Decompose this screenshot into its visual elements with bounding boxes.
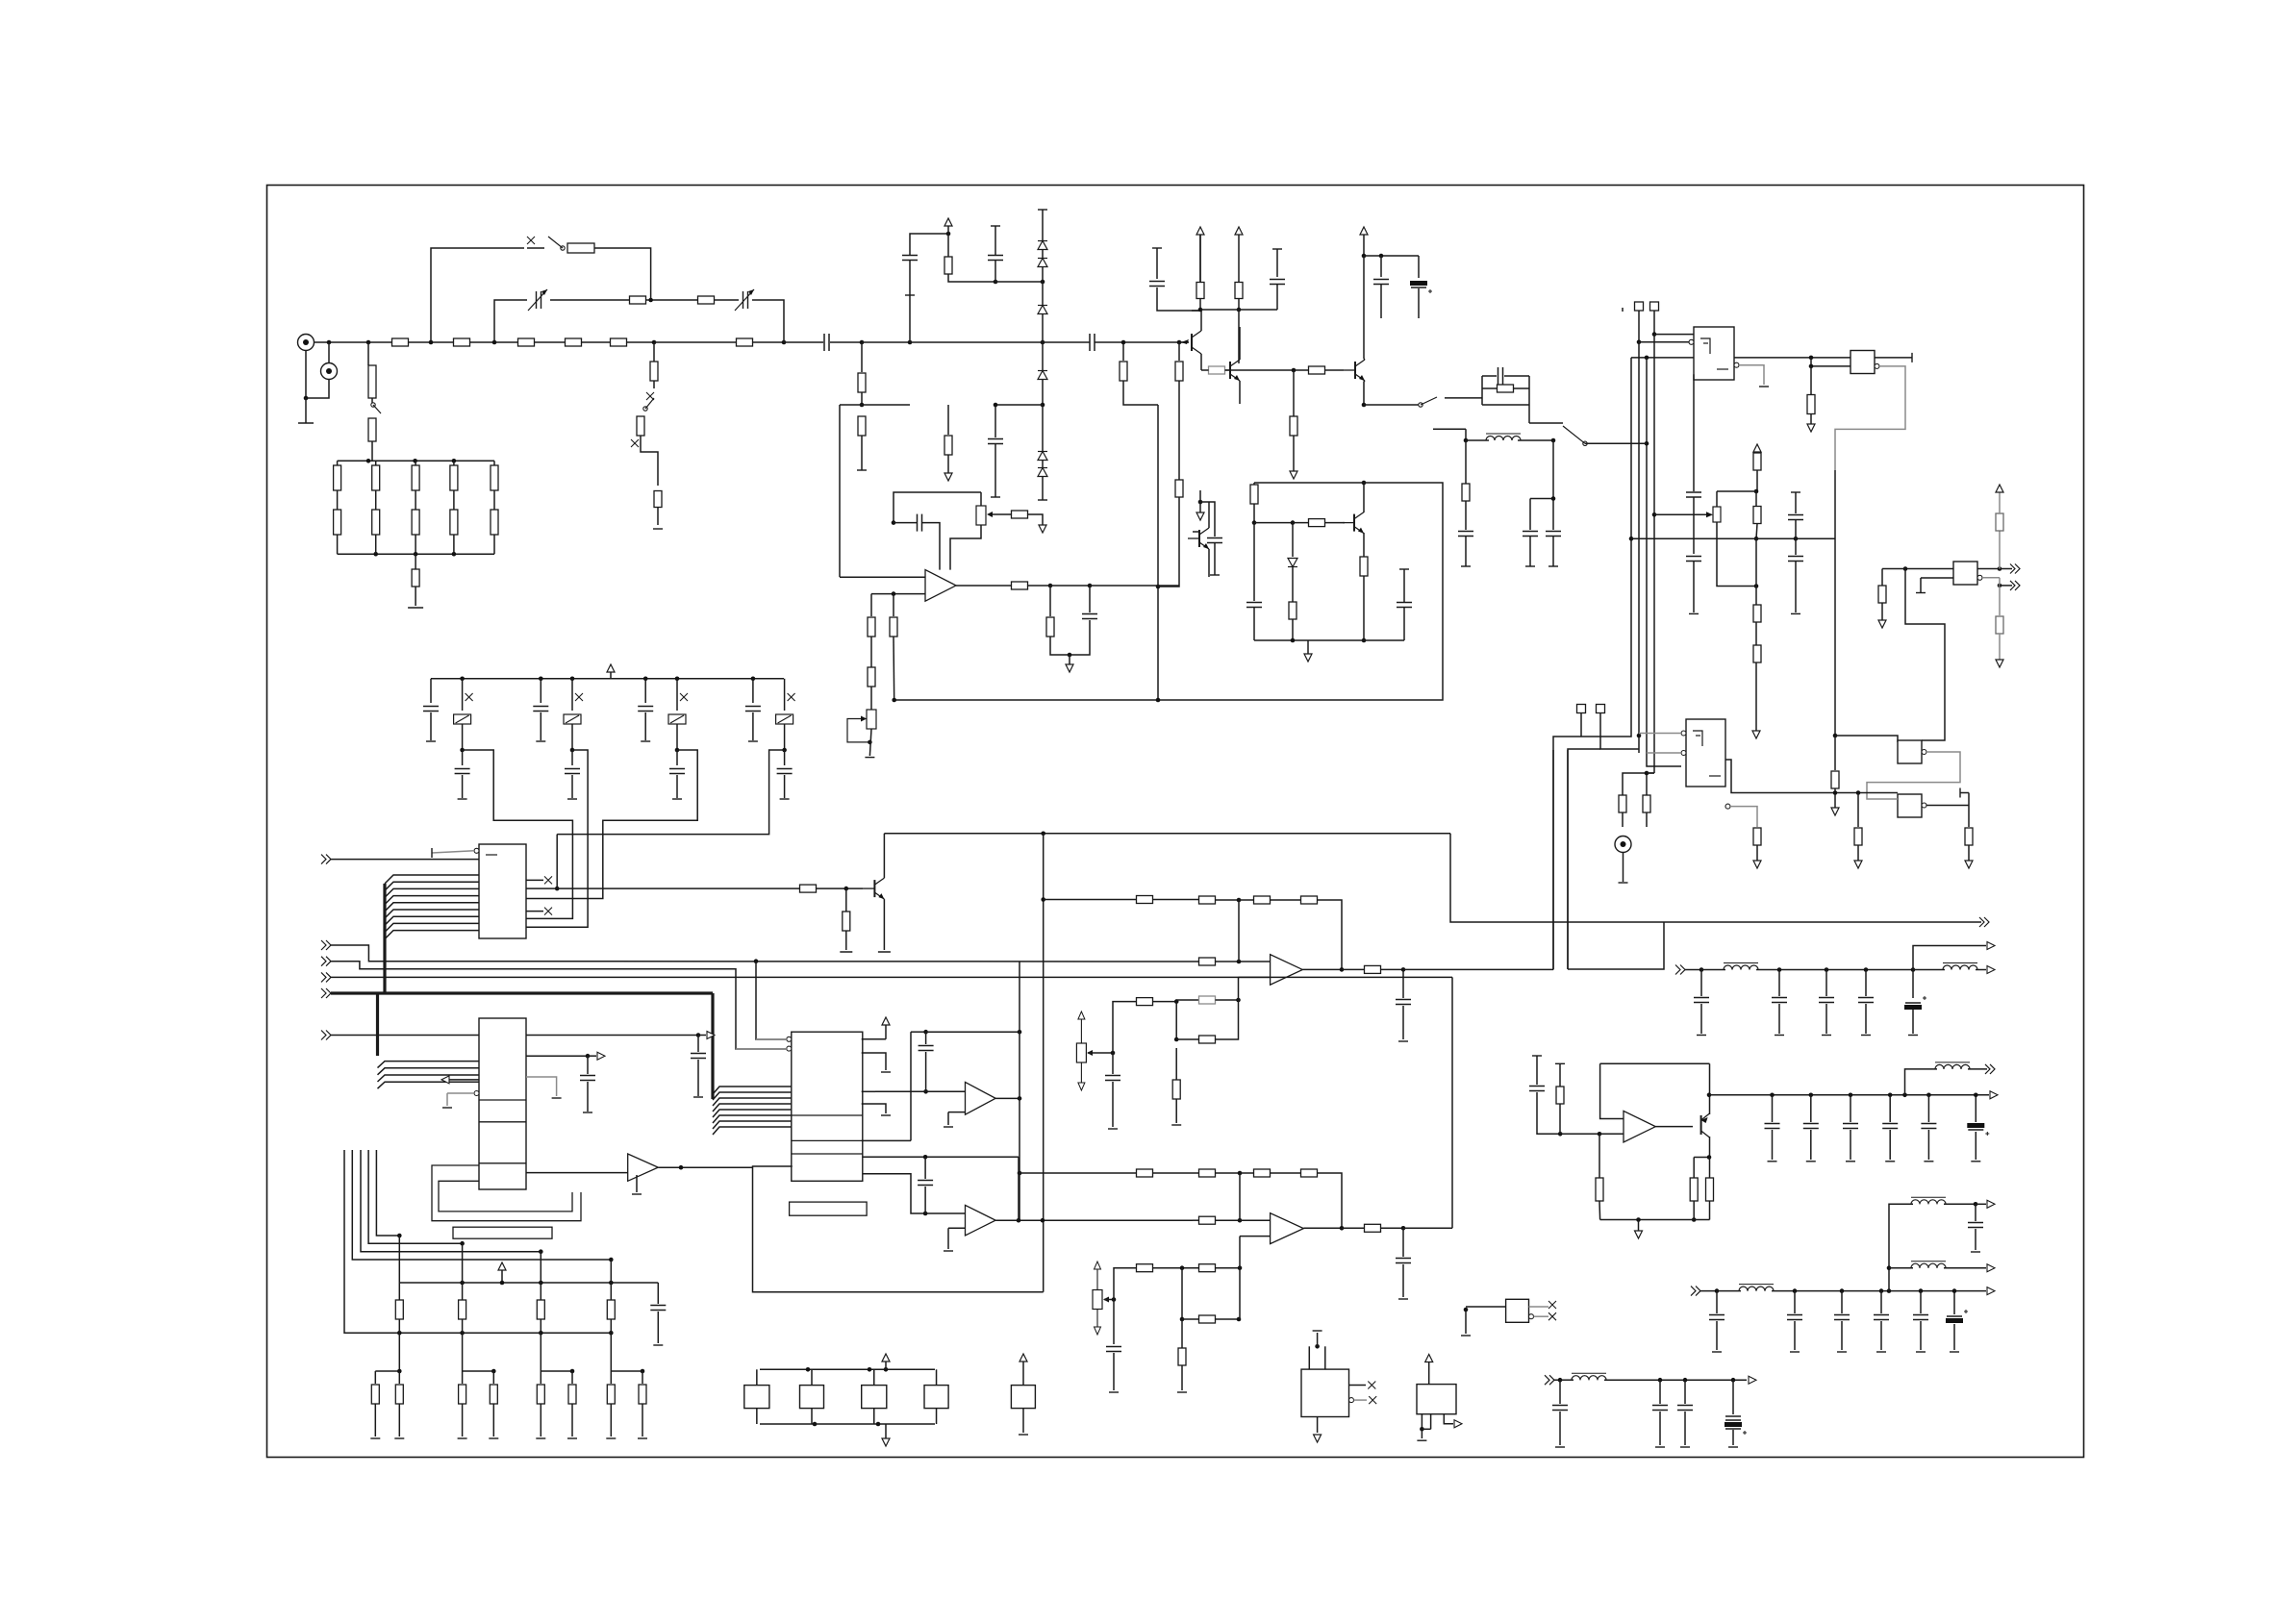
wire W497 bbox=[760, 1368, 935, 1370]
wire W87 bbox=[1199, 299, 1201, 311]
wire W50 bbox=[839, 405, 841, 577]
terminator bbox=[991, 496, 1000, 498]
polarized capacitor C56 bbox=[1725, 1422, 1747, 1435]
transistor Q3 bbox=[1188, 528, 1209, 549]
wire W56 bbox=[948, 274, 995, 282]
junction bbox=[1952, 1288, 1957, 1293]
wire W333 bbox=[883, 834, 885, 878]
resistor R96 bbox=[1137, 1169, 1153, 1177]
IC XF6 bbox=[1301, 1369, 1349, 1416]
wire W495 bbox=[1018, 1157, 1020, 1220]
wire W383 bbox=[1239, 976, 1271, 978]
wire W39 bbox=[338, 553, 494, 555]
wire W69 bbox=[1042, 461, 1044, 467]
power arrow bbox=[1425, 1355, 1433, 1362]
wire W48 bbox=[861, 392, 863, 405]
terminator bbox=[1697, 1035, 1706, 1037]
wire W523 bbox=[1020, 1172, 1137, 1174]
resistor R85 bbox=[395, 1385, 403, 1404]
wire W508 bbox=[885, 1424, 887, 1438]
terminator bbox=[1924, 1161, 1933, 1162]
junction bbox=[1699, 967, 1704, 972]
junction bbox=[1018, 1096, 1022, 1101]
wire W119 bbox=[1293, 522, 1309, 524]
wire W129 bbox=[1292, 567, 1294, 602]
junction bbox=[868, 1367, 872, 1372]
terminator bbox=[1417, 1439, 1426, 1441]
junction bbox=[1362, 481, 1367, 486]
IC U5 bbox=[1686, 719, 1725, 787]
wire W252 bbox=[1050, 585, 1090, 587]
junction bbox=[1401, 967, 1406, 972]
resistor R15 bbox=[334, 465, 341, 490]
IC U5 divider bbox=[479, 1099, 526, 1101]
wire W273 bbox=[571, 724, 573, 750]
junction bbox=[1041, 280, 1045, 285]
wire W340 bbox=[713, 1092, 792, 1100]
wire W192 bbox=[1631, 537, 1835, 539]
wire W116 bbox=[1253, 483, 1255, 485]
resistor R52 bbox=[1965, 828, 1973, 845]
connector port bbox=[321, 988, 331, 998]
terminator bbox=[1019, 1434, 1028, 1436]
junction bbox=[304, 396, 309, 401]
resistor R61 bbox=[1012, 511, 1028, 518]
terminator bbox=[1655, 1446, 1665, 1448]
wire W374 bbox=[1153, 899, 1200, 901]
junction bbox=[366, 340, 371, 345]
wire W389 bbox=[1402, 1006, 1404, 1039]
junction bbox=[1840, 1288, 1845, 1293]
ground bbox=[944, 473, 952, 481]
output bubble bbox=[1725, 804, 1730, 809]
resistor R87 bbox=[490, 1385, 497, 1404]
IC XF7 bbox=[1417, 1385, 1456, 1414]
wire W498 bbox=[885, 1362, 887, 1369]
wire W362 bbox=[1088, 1052, 1113, 1054]
wire W214 bbox=[1647, 752, 1681, 754]
capacitor C35 bbox=[1396, 1000, 1411, 1005]
wire W564 bbox=[1659, 1412, 1661, 1445]
wire W311 bbox=[331, 976, 1025, 978]
wire W91 bbox=[1201, 369, 1209, 371]
wire W25 bbox=[371, 441, 373, 461]
wire W502 bbox=[811, 1409, 813, 1424]
wire W500 bbox=[756, 1409, 758, 1424]
terminator bbox=[1806, 1161, 1816, 1162]
wire W375 bbox=[1216, 899, 1240, 901]
wire W74 bbox=[947, 455, 949, 479]
junction bbox=[946, 232, 951, 237]
wire W345 bbox=[713, 1121, 792, 1129]
trimmer trimmer capacitor1 bbox=[454, 714, 471, 724]
wire W55 bbox=[947, 234, 949, 257]
wire W308 bbox=[331, 945, 1199, 962]
terminator bbox=[881, 1114, 891, 1116]
wire W512 bbox=[1114, 1268, 1137, 1300]
no-connect X bbox=[466, 693, 473, 701]
junction bbox=[1849, 1093, 1853, 1098]
wire W436 bbox=[1968, 1068, 1987, 1070]
wire W402 bbox=[1976, 969, 1986, 971]
resistor R84 bbox=[371, 1385, 379, 1404]
wire W438 bbox=[1975, 1132, 1976, 1160]
capacitor C31 bbox=[691, 1054, 706, 1059]
wire W444 bbox=[1600, 1219, 1710, 1221]
wire W298 bbox=[385, 882, 479, 890]
junction bbox=[1237, 1317, 1242, 1322]
wire W305 bbox=[385, 931, 479, 939]
wire W397 bbox=[1685, 969, 1701, 971]
junction bbox=[1926, 1093, 1931, 1098]
wire W328 bbox=[446, 1093, 448, 1106]
capacitor C9 bbox=[1373, 280, 1389, 285]
wire W558 bbox=[1554, 1379, 1560, 1381]
wire W454 bbox=[376, 1150, 399, 1236]
wire W420 bbox=[1600, 1063, 1624, 1118]
connector port bbox=[1987, 966, 1995, 974]
wire W173 bbox=[1647, 772, 1654, 774]
connector port bbox=[1454, 1420, 1462, 1428]
resistor R8 bbox=[368, 418, 376, 441]
wire W353 bbox=[862, 1139, 911, 1141]
wire W580 bbox=[1889, 1204, 1913, 1290]
junction bbox=[570, 1369, 575, 1374]
connector port bbox=[1987, 1200, 1995, 1208]
wire W32 bbox=[715, 299, 740, 301]
wire W228 bbox=[1999, 492, 2001, 513]
wire W292 bbox=[784, 775, 786, 798]
power arrow bbox=[498, 1262, 506, 1270]
wire W440 bbox=[1693, 1158, 1695, 1179]
ground bbox=[1996, 660, 2003, 667]
wire W446 bbox=[1599, 1134, 1600, 1178]
wire W488 bbox=[863, 1156, 1019, 1158]
wire W385 bbox=[1342, 968, 1364, 970]
terminator bbox=[1971, 1161, 1980, 1162]
wire W406 bbox=[1778, 1004, 1780, 1034]
wire W118 bbox=[1254, 522, 1293, 524]
wire W112 bbox=[1364, 381, 1365, 405]
wire W124 bbox=[1363, 533, 1365, 558]
junction bbox=[860, 403, 865, 408]
wire W139 bbox=[1482, 375, 1497, 377]
junction bbox=[1018, 1171, 1022, 1176]
wire W513 bbox=[1153, 1267, 1200, 1269]
junction bbox=[1291, 638, 1296, 643]
wire W262 bbox=[430, 712, 432, 740]
capacitor C43 bbox=[1803, 1124, 1819, 1129]
wire W251 bbox=[1028, 585, 1051, 587]
resistor R73 bbox=[1199, 996, 1216, 1004]
terminator bbox=[1916, 592, 1926, 594]
junction bbox=[1707, 1155, 1712, 1160]
terminator bbox=[1689, 612, 1699, 614]
wire W184 bbox=[1756, 452, 1758, 453]
capacitor C53 bbox=[1652, 1406, 1668, 1411]
wire W163 bbox=[1581, 358, 1631, 737]
capacitor C59 bbox=[1874, 1315, 1889, 1320]
capacitor C27 bbox=[638, 707, 653, 712]
wire W560 bbox=[1604, 1379, 1747, 1381]
terminator bbox=[1398, 1040, 1408, 1042]
IC U6 bbox=[1953, 562, 1977, 585]
wire W347 bbox=[862, 1038, 886, 1040]
junction bbox=[1088, 584, 1093, 588]
wire W200 bbox=[1795, 520, 1797, 538]
wire W234 bbox=[1622, 308, 1624, 312]
wire W144 bbox=[1465, 429, 1467, 440]
wire W577 bbox=[1880, 1321, 1882, 1350]
wire W291 bbox=[784, 750, 786, 765]
wire W334 bbox=[883, 899, 885, 950]
wire W153 bbox=[1530, 498, 1553, 500]
IC XF2 bbox=[800, 1386, 824, 1409]
wire W261 bbox=[430, 679, 432, 703]
wire W318 bbox=[698, 1035, 706, 1037]
wire W343 bbox=[713, 1110, 792, 1117]
wire W393 bbox=[1568, 922, 1664, 969]
wire W110 bbox=[1325, 369, 1345, 371]
wire W11 bbox=[654, 341, 737, 343]
wire W394 bbox=[1623, 853, 1624, 883]
terminator bbox=[991, 225, 1000, 227]
connector terminal P1 bbox=[1635, 302, 1644, 311]
ground bbox=[1314, 1435, 1322, 1442]
wire W226 bbox=[2000, 568, 2012, 570]
junction bbox=[884, 1367, 889, 1372]
wire W180 bbox=[1810, 366, 1812, 394]
wire W441 bbox=[1709, 1158, 1711, 1179]
wire W419 bbox=[1600, 1062, 1710, 1064]
wire W443 bbox=[1709, 1201, 1711, 1220]
wire W24 bbox=[371, 398, 373, 404]
terminator bbox=[653, 528, 663, 530]
ground bbox=[1831, 808, 1839, 815]
wire W243 bbox=[894, 492, 981, 523]
junction bbox=[609, 1258, 614, 1262]
resistor R98 bbox=[1254, 1169, 1271, 1177]
resistor R17 bbox=[372, 465, 380, 490]
resistor R37 bbox=[1290, 416, 1297, 436]
wire W15 bbox=[862, 341, 910, 343]
junction bbox=[460, 1331, 465, 1336]
terminator bbox=[583, 1112, 592, 1113]
wire W315 bbox=[378, 1075, 480, 1082]
wire W207 bbox=[1867, 752, 1960, 799]
wire W474 bbox=[462, 1371, 464, 1384]
junction bbox=[452, 459, 457, 463]
wire W122 bbox=[1254, 482, 1364, 484]
resistor R34 bbox=[1235, 283, 1243, 299]
resistor R75 bbox=[1365, 965, 1381, 973]
wire W540 bbox=[1402, 1228, 1404, 1257]
junction bbox=[570, 748, 575, 753]
junction bbox=[1879, 1288, 1884, 1293]
switch switch1 bbox=[371, 403, 381, 413]
terminator bbox=[606, 1437, 616, 1439]
terminator bbox=[638, 1437, 647, 1439]
wire W532 bbox=[1240, 1219, 1271, 1221]
wire W227 bbox=[1999, 531, 2001, 569]
capacitor C41 bbox=[1529, 1087, 1545, 1091]
wire W434 bbox=[1927, 1130, 1929, 1160]
terminator bbox=[1790, 1351, 1800, 1353]
wire W162 bbox=[1631, 357, 1694, 359]
wire W378 bbox=[1318, 900, 1343, 969]
wire W327 bbox=[447, 1092, 474, 1094]
resistor R32 bbox=[1175, 480, 1183, 497]
junction bbox=[1645, 771, 1649, 776]
power arrow bbox=[1020, 1354, 1027, 1362]
terminator bbox=[1885, 1161, 1895, 1162]
no-connect X bbox=[1369, 1396, 1376, 1404]
junction bbox=[1238, 1218, 1243, 1223]
wire W248 bbox=[1028, 514, 1044, 525]
power arrow bbox=[944, 218, 952, 226]
wire W415 bbox=[1559, 1063, 1561, 1087]
wire W392 bbox=[1450, 834, 1981, 922]
wire W300 bbox=[385, 896, 479, 905]
wire W522 bbox=[1181, 1365, 1183, 1390]
wire W582 bbox=[1976, 1203, 1986, 1205]
junction bbox=[994, 280, 998, 285]
wire W168 bbox=[1580, 713, 1582, 737]
resistor R5 bbox=[611, 338, 627, 346]
terminator bbox=[1822, 1035, 1831, 1037]
wire W21 bbox=[1192, 310, 1201, 312]
potentiometer potentiometer4 bbox=[1093, 1290, 1102, 1310]
capacitor C38 bbox=[1819, 998, 1834, 1003]
wire W427 bbox=[1810, 1095, 1812, 1122]
wire W396 bbox=[1451, 977, 1453, 1228]
resistor R46 bbox=[1807, 395, 1815, 414]
terminator bbox=[1619, 882, 1628, 884]
junction bbox=[1636, 1217, 1641, 1222]
resistor R97 bbox=[1199, 1169, 1216, 1177]
wire W435 bbox=[1905, 1069, 1938, 1095]
terminator bbox=[1712, 1351, 1722, 1353]
wire W559 bbox=[1560, 1379, 1573, 1381]
wire W289 bbox=[784, 724, 786, 750]
wire W401 bbox=[1913, 969, 1945, 971]
resistor R68 bbox=[1137, 896, 1153, 904]
wire W453 bbox=[368, 1150, 463, 1243]
wire W518 bbox=[1181, 1268, 1183, 1319]
wire W276 bbox=[571, 775, 573, 798]
connector port in bbox=[1545, 1375, 1554, 1385]
output bubble bbox=[1875, 363, 1879, 368]
wire W239 bbox=[870, 687, 872, 710]
wire W319 bbox=[697, 1036, 699, 1053]
wire W366 bbox=[1176, 999, 1199, 1001]
wire W79 bbox=[1157, 405, 1159, 700]
terminator bbox=[1109, 1391, 1119, 1393]
wire W472 bbox=[398, 1404, 400, 1437]
terminator bbox=[1555, 1062, 1565, 1064]
junction bbox=[1731, 1378, 1736, 1383]
switch switch5 bbox=[1563, 426, 1587, 445]
terminator bbox=[1791, 491, 1800, 493]
wire W551 bbox=[1317, 1417, 1319, 1434]
capacitor C32 bbox=[580, 1076, 595, 1081]
wire W174 bbox=[1646, 812, 1648, 827]
wire W181 bbox=[1810, 414, 1812, 424]
terminator bbox=[1177, 1391, 1187, 1393]
capacitor C45 bbox=[1882, 1124, 1898, 1129]
wire W407 bbox=[1825, 970, 1827, 997]
resistor R40 bbox=[1360, 557, 1368, 576]
junction bbox=[1833, 734, 1838, 738]
wire W288 bbox=[784, 697, 786, 711]
junction bbox=[397, 1234, 402, 1238]
junction bbox=[1856, 790, 1861, 795]
junction bbox=[675, 748, 680, 753]
wire W566 bbox=[1684, 1412, 1686, 1445]
capacitor C2 bbox=[1090, 334, 1095, 351]
wire W191 bbox=[1756, 524, 1757, 539]
wire W37 bbox=[657, 508, 659, 526]
resistor R69 bbox=[1199, 896, 1216, 904]
wire W6 bbox=[409, 341, 455, 343]
wire W562 bbox=[1559, 1412, 1561, 1445]
wire W253 bbox=[1090, 585, 1179, 587]
wire W269 bbox=[540, 679, 541, 703]
wire W405 bbox=[1778, 970, 1780, 997]
junction bbox=[1041, 340, 1045, 345]
wire W320 bbox=[697, 1060, 699, 1096]
junction bbox=[452, 552, 457, 557]
wire W501 bbox=[811, 1369, 813, 1385]
wire W62 bbox=[1042, 267, 1044, 282]
wire W450 bbox=[636, 1175, 638, 1192]
junction bbox=[1888, 1093, 1893, 1098]
ground bbox=[1752, 731, 1760, 738]
wire W14 bbox=[830, 341, 862, 343]
junction bbox=[1362, 254, 1367, 259]
wire W462 bbox=[540, 1252, 541, 1300]
wire W59 bbox=[994, 261, 996, 282]
wire W80 bbox=[1178, 342, 1180, 361]
wire W205 bbox=[1834, 788, 1836, 812]
wire W468 bbox=[375, 1370, 399, 1372]
resistor R39 bbox=[1309, 519, 1325, 527]
wire W215 bbox=[1857, 793, 1859, 828]
wire W339 bbox=[713, 1087, 792, 1094]
resistor R80 bbox=[395, 1300, 403, 1319]
no-connect X bbox=[788, 693, 795, 701]
resistor R41 bbox=[1289, 602, 1297, 619]
junction bbox=[1340, 967, 1345, 972]
wire W78 bbox=[1123, 381, 1158, 405]
wire W242 bbox=[893, 637, 895, 700]
terminator bbox=[458, 798, 467, 800]
wire W568 bbox=[1732, 1430, 1734, 1445]
IC U8 bbox=[479, 844, 526, 938]
variable arrows bbox=[1080, 1017, 1082, 1043]
wire W146 bbox=[1466, 439, 1489, 441]
junction bbox=[1652, 332, 1657, 337]
IC U10 bbox=[792, 1032, 863, 1181]
capacitor C36 bbox=[1694, 998, 1709, 1003]
resistor R25 bbox=[412, 569, 419, 587]
wire W527 bbox=[1271, 1172, 1302, 1174]
wire W185 bbox=[1756, 470, 1758, 491]
ground bbox=[1196, 512, 1204, 520]
wire W486 bbox=[610, 1404, 612, 1437]
wire W330 bbox=[817, 887, 864, 889]
wire W237 bbox=[870, 594, 872, 616]
